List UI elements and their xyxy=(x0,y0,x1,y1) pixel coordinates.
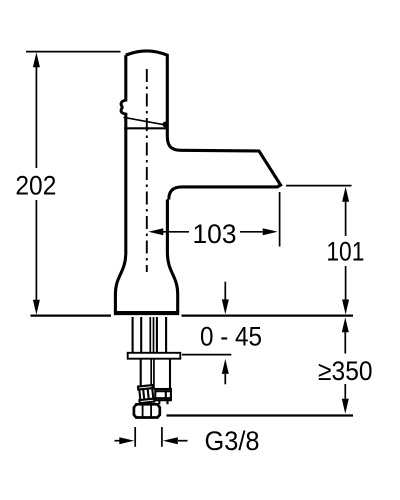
hex connection nut G3/8 xyxy=(134,404,160,417)
dimension 101: vertical dimension line with arrows xyxy=(345,201,347,300)
right fitting (hex adapter) xyxy=(155,389,171,404)
dimension G3/8: arrows xyxy=(115,440,121,442)
dimension 202: vertical dimension line with arrows xyxy=(35,67,37,300)
faucet handle cylinder xyxy=(126,51,168,136)
svg-text:202: 202 xyxy=(15,171,56,201)
dimension 0-45: upper arrow (pointing down at deck) xyxy=(224,282,226,300)
lever bump on handle left side xyxy=(121,100,126,114)
supply tubes below washer xyxy=(141,359,170,390)
svg-text:101: 101 xyxy=(326,237,364,267)
dimension G3/8: extension lines xyxy=(135,427,162,447)
lever diagonal line xyxy=(124,117,165,125)
bottom reference line (supply connection level) xyxy=(167,414,354,416)
deck line (mounting surface, left and right of base) xyxy=(31,314,354,316)
svg-text:≥350: ≥350 xyxy=(318,356,373,386)
dimension 103: dimension line with arrows xyxy=(163,231,263,233)
dimension 103: right extension line (spout tip vertical) xyxy=(279,192,281,247)
lever junction dot xyxy=(162,122,168,128)
svg-text:G3/8: G3/8 xyxy=(205,426,260,456)
washer level extension line xyxy=(182,354,231,356)
body base bottom edge xyxy=(114,312,179,315)
svg-text:103: 103 xyxy=(193,219,237,249)
faucet body and spout outline xyxy=(115,128,280,312)
handle joint line xyxy=(124,127,167,129)
dimension >=350: vertical dimension line with arrows xyxy=(344,331,346,399)
spout outlet extension line (horizontal) xyxy=(286,185,352,187)
dimension 0-45: lower arrow (pointing up at washer line) xyxy=(222,359,229,374)
left compression fitting (ridged) xyxy=(138,385,154,403)
dimension 202: top extension line xyxy=(26,51,121,53)
faucet centerline (dash-dot) xyxy=(146,69,148,272)
mounting washer xyxy=(128,353,181,359)
supply tubes above washer xyxy=(133,317,167,353)
svg-text:0 - 45: 0 - 45 xyxy=(200,321,262,351)
